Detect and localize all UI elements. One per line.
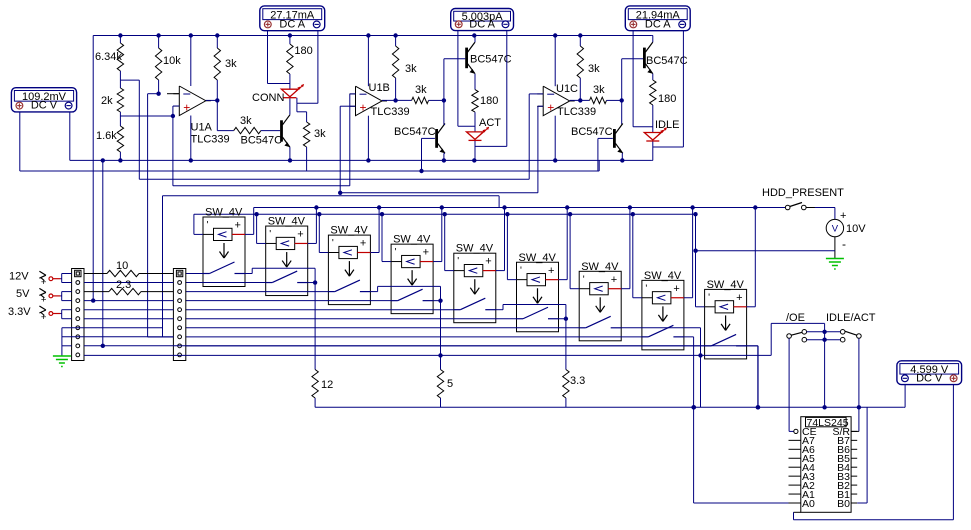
svg-text:IDLE: IDLE: [655, 119, 679, 131]
op-amp U1A TLC339: [179, 86, 206, 116]
wire bus2 rise to rail: [598, 160, 600, 171]
pin B0: [851, 502, 857, 504]
resistor 3k pull-up U1A: [216, 36, 218, 49]
wire row4: [84, 300, 173, 302]
resistor 3k base Q1: [234, 127, 261, 133]
svg-text:/OE: /OE: [786, 312, 805, 324]
svg-text:180: 180: [480, 95, 498, 107]
wire SW4 output down to resistor 5: [433, 300, 440, 302]
wire Q2 emitter to rail: [444, 152, 445, 154]
svg-text:3k: 3k: [405, 63, 417, 75]
resistor 3k base Q2: [412, 97, 429, 103]
wire SW2 control + lead red: [295, 242, 308, 244]
svg-text:TLC339: TLC339: [557, 106, 596, 118]
op-amp U1B TLC339: [356, 86, 383, 116]
wire SW9 - ctrl to lower bus: [696, 306, 705, 308]
wire SW2 output down to resistor 12: [308, 282, 315, 284]
wire meter XMM3 - to LED ACT cathode: [506, 31, 508, 147]
wire SW5 control - lead: [454, 270, 465, 272]
svg-text:': ': [708, 292, 710, 303]
op-amp U1C TLC339: [543, 86, 570, 116]
arrow SW1: [223, 243, 225, 258]
wire Q4 emitter to rail: [621, 152, 624, 154]
svg-text:12V: 12V: [9, 271, 29, 283]
svg-text:10V: 10V: [846, 223, 866, 235]
wire meter XMM4 - to LED IDLE cathode: [682, 31, 684, 147]
resistor 180 ACT: [472, 90, 478, 113]
svg-text:DC V: DC V: [916, 372, 943, 384]
svg-text:+: +: [235, 220, 241, 232]
svg-text:': ': [332, 238, 334, 249]
wire base resistor to Q1: [261, 130, 280, 132]
switch lever SW6: [517, 318, 524, 320]
switch lever SW2: [266, 282, 273, 284]
svg-text:': ': [207, 220, 209, 231]
wire SW7 + ctrl to upper bus: [621, 288, 630, 290]
wire Q3 base jog: [444, 58, 465, 60]
switch lever SW7: [579, 327, 586, 329]
resistor 10k: [158, 36, 160, 49]
wire top V+ rail: [93, 35, 651, 37]
wire rows from connector to switches: [185, 273, 203, 275]
svg-text:3k: 3k: [225, 58, 237, 70]
wire SW8 + ctrl to upper bus: [684, 297, 693, 299]
resistor 3k pull-up U1C: [579, 36, 581, 47]
svg-text:+: +: [547, 101, 554, 115]
wire Q3 emitter to 180: [474, 74, 476, 90]
svg-text:+: +: [673, 283, 679, 295]
svg-text:TLC339: TLC339: [191, 134, 230, 146]
wire U1C - input to bus3: [529, 93, 543, 95]
wire U1B + input: [340, 105, 355, 107]
wire bottom long rail: [315, 406, 904, 408]
wire SW6 output down to resistor 3.3: [559, 318, 566, 320]
wire SW9 + ctrl to upper bus: [747, 306, 756, 308]
pin B2: [851, 484, 857, 486]
svg-text:2.3: 2.3: [116, 279, 131, 291]
wire 5V to connector bracket: [60, 295, 61, 297]
wire verticals dropping to rows: [148, 336, 174, 338]
pin S/R: [851, 430, 857, 432]
wire rows between connectors: [84, 273, 107, 275]
svg-text:6.34k: 6.34k: [95, 51, 122, 63]
wire SW8 control - lead: [642, 297, 653, 299]
switch /OE: [787, 334, 792, 339]
wire SW7 control + lead red: [608, 288, 621, 290]
svg-text:3.3: 3.3: [570, 375, 585, 387]
wire U1C output node: [570, 99, 590, 101]
wire SW5 - ctrl to lower bus: [445, 270, 454, 272]
wire row9 long: [84, 345, 758, 347]
wire U1C + input to U1B + node: [538, 105, 543, 107]
resistor 3k pull-up U1B: [395, 36, 397, 47]
wire SW6 control + lead red: [546, 279, 559, 281]
svg-text:3k: 3k: [240, 115, 252, 127]
svg-text:': ': [395, 247, 397, 258]
wire meter XMM5 - to rail: [904, 385, 906, 408]
ground connector 1: [53, 355, 71, 357]
svg-text:+: +: [41, 294, 47, 305]
svg-text:+: +: [360, 238, 366, 250]
wire SW5 + ctrl to upper bus: [496, 270, 505, 272]
wire SW6 control - lead: [517, 279, 528, 281]
wire SW9 output to bottom rail: [747, 345, 759, 347]
wire Q5 collector to rail corner: [652, 36, 654, 43]
wire row8: [84, 336, 173, 338]
svg-text:180: 180: [294, 45, 312, 57]
arrow SW3: [348, 261, 350, 276]
wire Q4 base jog to bus2 end: [598, 137, 613, 139]
wire SW1 - ctrl to lower bus corner: [194, 233, 203, 235]
wire SW3 - ctrl to lower bus: [319, 252, 328, 254]
arrow SW8: [662, 306, 664, 321]
svg-text:12: 12: [321, 379, 333, 391]
wire meter XMM2 - to LED cathode: [317, 31, 319, 103]
wire Q5 emitter to 180: [652, 74, 654, 80]
switch lever SW4: [391, 300, 398, 302]
pin B7: [851, 439, 857, 441]
switch lever SW5: [454, 309, 461, 311]
wire SW3 output step-over to SW4: [370, 291, 377, 293]
wire SW4 control - lead: [391, 261, 402, 263]
svg-text:': ': [457, 256, 459, 267]
meter XMM5 4.599 V DC V: [897, 361, 962, 385]
wire bus3: [139, 178, 529, 180]
switch IDLE/ACT: [840, 330, 845, 335]
svg-text:+: +: [548, 265, 554, 277]
wire 2k/1.6k tap to U1A + input: [120, 115, 172, 117]
pin A2: [789, 484, 801, 486]
pin B1: [851, 493, 857, 495]
wire Q5 base jog: [622, 58, 643, 60]
svg-text:': ': [583, 274, 585, 285]
svg-text:+: +: [41, 312, 47, 323]
wire SW3 control + lead red: [357, 252, 370, 254]
wire SW2 + ctrl to upper bus: [308, 242, 317, 244]
wire Q1 collector to LED cathode: [289, 98, 291, 115]
wire SW7 output to bottom rail: [621, 327, 700, 329]
wire SW4 + ctrl to upper bus: [433, 261, 442, 263]
wire 3.3V to connector bracket: [60, 313, 61, 315]
wire bottom 0V rail of comparator section: [70, 159, 652, 161]
svg-text:5: 5: [447, 378, 453, 390]
pin B5: [851, 457, 857, 459]
wire 0V return line: [696, 250, 835, 252]
svg-text:BC547C: BC547C: [241, 135, 283, 147]
svg-text:DC A: DC A: [645, 19, 671, 31]
svg-text:HDD_PRESENT: HDD_PRESENT: [762, 187, 844, 199]
pin A6: [789, 448, 801, 450]
resistor 3k base Q4: [590, 97, 607, 103]
wire SW7 control - lead: [579, 288, 590, 290]
svg-text:BC547C: BC547C: [470, 54, 512, 66]
pin CE: [794, 429, 798, 433]
wire U1A power pins: [190, 36, 192, 87]
meter XMM4 21.94mA DC A: [625, 6, 690, 31]
svg-text:': ': [645, 283, 647, 294]
svg-text:DC V: DC V: [31, 100, 58, 112]
wire B0 up to rail: [857, 502, 867, 504]
switch lever SW9: [705, 345, 712, 347]
IC U2 74LS245: [801, 417, 851, 513]
svg-text:BC547C: BC547C: [646, 55, 688, 67]
svg-text:CONN: CONN: [252, 92, 284, 104]
wire row10 long: [84, 354, 771, 356]
resistor 2.3: [84, 291, 109, 293]
pin A0: [789, 502, 801, 504]
resistor 10: [107, 270, 139, 276]
svg-text:+: +: [736, 292, 742, 304]
wire LED ACT cathode to rail: [474, 141, 476, 161]
wire 12V to connector bracket: [60, 278, 61, 280]
wire row5: [84, 309, 173, 311]
wire 6.34k/2k tap to bus3: [120, 79, 139, 81]
wire SW8 control + lead red: [671, 297, 684, 299]
svg-text:A0: A0: [802, 498, 815, 510]
wire row10 to OE bracket: [770, 323, 772, 355]
wire SW5 control + lead red: [483, 270, 496, 272]
svg-text:+: +: [41, 277, 47, 288]
wire OE common down to CE: [788, 338, 790, 431]
wire SW4 - ctrl to lower bus: [382, 261, 391, 263]
resistor 12: [312, 370, 318, 399]
wire chip ground loop to meter +: [794, 511, 801, 513]
wire ground bracket connector 1: [62, 327, 84, 329]
resistor 3k collector load Q1: [296, 103, 298, 112]
wire LED IDLE cathode to rail end: [652, 142, 654, 161]
source V1 10V: [826, 219, 843, 236]
wire SW9 control + lead red: [734, 306, 747, 308]
svg-text:3k: 3k: [415, 84, 427, 96]
wire meter XMM1 + to bus: [19, 112, 21, 171]
wire U1B - input: [350, 93, 356, 95]
wire vertical mid-left: [102, 160, 104, 347]
svg-text:+: +: [297, 229, 303, 241]
resistor 180 IDLE: [650, 80, 656, 105]
wire U1A - node jog down: [148, 93, 159, 95]
wire row9 drop to rail: [757, 346, 759, 408]
svg-text:U1A: U1A: [191, 122, 213, 134]
svg-text:DC A: DC A: [469, 18, 495, 30]
svg-text:ACT: ACT: [479, 117, 501, 129]
svg-text:1.6k: 1.6k: [96, 130, 117, 142]
meter XMM3 5.003pA DC A: [451, 9, 514, 31]
svg-text:3k: 3k: [314, 128, 326, 140]
wire SW3 + ctrl to upper bus: [370, 252, 379, 254]
svg-text:': ': [520, 265, 522, 276]
pin A3: [789, 475, 801, 477]
svg-text:U1B: U1B: [369, 82, 390, 94]
wire row2: [84, 282, 173, 284]
wire bus4: [173, 185, 350, 187]
svg-text:V: V: [832, 224, 839, 235]
wire SW1 output step-over to SW2: [245, 273, 252, 275]
resistor 2k: [119, 80, 121, 88]
wire SW6 + ctrl to upper bus: [559, 279, 568, 281]
wire SW2 control - lead: [266, 242, 277, 244]
pin A5: [789, 457, 801, 459]
wire U1A output down to base resistor: [216, 100, 218, 130]
connector: [72, 269, 84, 361]
wire SW4 control + lead red: [420, 261, 433, 263]
wire SW2 - ctrl to lower bus: [257, 242, 266, 244]
svg-text:+: +: [840, 210, 846, 222]
wire meter XMM3 + to LED ACT anode: [457, 31, 459, 127]
switch lever SW1: [203, 273, 210, 275]
wire U1B output node: [382, 99, 412, 101]
svg-text:': ': [269, 229, 271, 240]
wire 10V minus to ground: [834, 237, 836, 259]
wire U1C output vertical: [621, 59, 623, 125]
wire Q2 collector slant target: [444, 124, 445, 126]
wire to 10V source: [815, 207, 835, 209]
wire meter XMM4 + to LED IDLE anode: [632, 31, 634, 127]
wire SW1 control + lead red: [232, 233, 245, 235]
meter XMM1 109.2mV DC V: [11, 88, 76, 112]
pin B6: [851, 448, 857, 450]
svg-text:3k: 3k: [593, 84, 605, 96]
switch lever SW3: [328, 291, 335, 293]
arrow SW2: [286, 252, 288, 267]
wire U1A output: [206, 99, 218, 101]
node junctions on bottom rail: [101, 158, 105, 162]
wire SW1 control - lead: [203, 233, 214, 235]
wire row6: [84, 318, 173, 320]
resistor 1.6k: [119, 116, 121, 126]
wire switch row upper: [807, 331, 841, 333]
wire lower control bus: [194, 213, 696, 215]
wire SW5 output step-over to SW6: [496, 309, 503, 311]
wire SW8 - ctrl to lower bus: [633, 297, 642, 299]
pin A1: [789, 493, 801, 495]
svg-text:+: +: [611, 274, 617, 286]
wire SW6 - ctrl to lower bus: [507, 279, 516, 281]
arrow SW4: [411, 270, 413, 285]
svg-text:3.3V: 3.3V: [8, 306, 31, 318]
wire SW9 control - lead: [705, 306, 716, 308]
wire U1C power pins: [554, 36, 556, 87]
wire meter XMM1 - to 0V rail: [69, 112, 71, 160]
node U1A inverting input: [156, 92, 160, 96]
svg-text:2k: 2k: [101, 95, 113, 107]
wire U1A + input drop to bus4: [172, 116, 174, 186]
wire switch row lower: [807, 339, 841, 341]
svg-text:+: +: [183, 101, 190, 115]
resistor 6.34k: [119, 36, 121, 44]
wire Q1 emitter to 0V rail: [289, 147, 291, 160]
svg-text:5V: 5V: [16, 288, 30, 300]
wire upper control bus: [254, 207, 786, 209]
svg-text:DC A: DC A: [279, 19, 305, 31]
svg-text:10k: 10k: [163, 55, 181, 67]
svg-text:U1C: U1C: [556, 83, 578, 95]
resistor 3.3: [563, 370, 569, 399]
svg-text:3k: 3k: [588, 63, 600, 75]
arrow SW6: [537, 288, 539, 303]
connector: [173, 269, 185, 361]
wire SW3 control - lead: [328, 252, 339, 254]
ground at 10V: [826, 258, 844, 260]
resistor 5: [437, 370, 443, 399]
svg-text:180: 180: [658, 93, 676, 105]
svg-text:+: +: [360, 101, 367, 115]
meter XMM2 27.17mA DC A: [260, 6, 325, 31]
arrow SW5: [474, 279, 476, 294]
wire left vertical from rail: [92, 36, 94, 301]
wire U1B power pins: [367, 36, 369, 87]
wire bus5: [163, 195, 500, 197]
wire SW7 - ctrl to lower bus: [570, 288, 579, 290]
pin B4: [851, 466, 857, 468]
wire center vertical to rail: [824, 324, 826, 408]
svg-text:B0: B0: [837, 498, 850, 510]
wire meter XMM2 + to LED anode: [267, 31, 269, 84]
svg-text:BC547C: BC547C: [394, 126, 436, 138]
wire row7: [84, 327, 163, 329]
svg-text:IDLE/ACT: IDLE/ACT: [826, 312, 876, 324]
switch lever SW8: [642, 336, 649, 338]
wire SW1 + ctrl to upper bus corner: [245, 233, 254, 235]
wire Q3 collector to rail: [474, 36, 476, 43]
svg-text:TLC339: TLC339: [371, 106, 410, 118]
switch HDD_PRESENT: [785, 205, 790, 210]
arrow SW9: [725, 315, 727, 330]
svg-text:BC547C: BC547C: [571, 126, 613, 138]
wire IDLE/ACT common down to S/R: [858, 338, 860, 431]
svg-text:-: -: [842, 237, 846, 251]
pin A4: [789, 466, 801, 468]
pin B3: [851, 475, 857, 477]
pin A7: [789, 439, 801, 441]
wire SW8 output to A0 of U2: [684, 336, 694, 338]
wire Q2 base from bus2: [422, 137, 435, 139]
wire U1B output vertical: [443, 59, 445, 125]
arrow SW7: [599, 297, 601, 312]
node junctions on top rail: [118, 33, 122, 37]
svg-text:+: +: [423, 247, 429, 259]
svg-text:+: +: [485, 256, 491, 268]
svg-text:10: 10: [116, 260, 128, 272]
